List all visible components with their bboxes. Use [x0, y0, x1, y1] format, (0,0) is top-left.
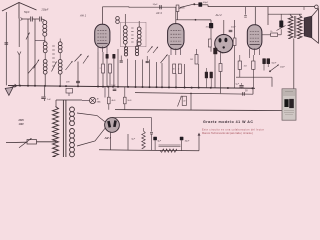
svg-text:5kΩ: 5kΩ	[128, 100, 132, 102]
svg-text:Marcos Tschornovski del pais I: Marcos Tschornovski del pais Italia ( Uc…	[202, 132, 253, 135]
svg-text:AZ !: AZ !	[104, 136, 111, 140]
svg-text:1: 1	[100, 68, 101, 70]
svg-text:4kΩ: 4kΩ	[112, 99, 116, 102]
svg-text:50: 50	[173, 69, 175, 71]
svg-text:100pF: 100pF	[206, 27, 212, 29]
svg-text:220V: 220V	[18, 120, 25, 122]
svg-text:16μF: 16μF	[185, 141, 190, 143]
svg-text:AH 2: AH 2	[215, 13, 223, 17]
svg-text:20pF: 20pF	[279, 67, 285, 69]
svg-text:1: 1	[178, 69, 179, 71]
svg-text:50pF: 50pF	[24, 11, 30, 14]
svg-text:50pF: 50pF	[272, 63, 277, 65]
svg-text:10nF: 10nF	[111, 85, 116, 87]
svg-text:1M: 1M	[190, 59, 193, 61]
svg-text:30V: 30V	[66, 81, 70, 83]
svg-text:200pF: 200pF	[41, 9, 49, 12]
svg-text:110V: 110V	[19, 124, 25, 126]
svg-text:10pF: 10pF	[153, 4, 159, 6]
svg-text:AH 1: AH 1	[79, 14, 87, 18]
svg-text:5V: 5V	[245, 91, 248, 93]
svg-text:30pF: 30pF	[231, 27, 236, 29]
svg-text:1nF: 1nF	[47, 99, 51, 101]
svg-text:Graetz modelo 41 W AC: Graetz modelo 41 W AC	[203, 120, 253, 124]
svg-text:50pF: 50pF	[203, 2, 209, 4]
svg-text:AF 3: AF 3	[155, 11, 162, 15]
